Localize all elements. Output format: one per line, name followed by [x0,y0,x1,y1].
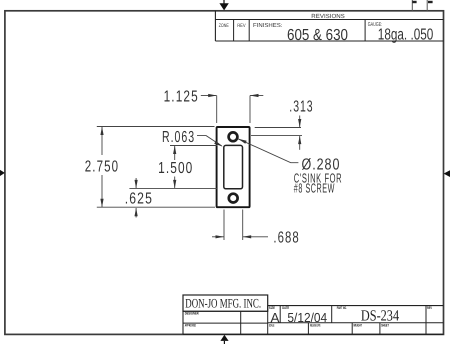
svg-text:APPROVED: APPROVED [185,324,197,328]
svg-text:REVISIONS: REVISIONS [311,13,345,20]
bottom hole countersink [229,194,238,203]
revisions block outline [215,11,443,41]
title block company name [185,295,261,310]
svg-text:2.750: 2.750 [85,158,119,175]
date value [287,310,327,325]
dim .688 extension lines [224,210,243,241]
label approved [185,324,197,328]
finishes cell label [253,22,283,29]
dim 2.750 extension lines [97,127,215,208]
dim .313 text [289,98,313,115]
svg-text:R.063: R.063 [162,129,195,146]
title block outline lines [183,306,443,335]
svg-text:DESIGNER: DESIGNER [185,312,199,316]
dim .313 arrows [298,116,301,150]
svg-text:.313: .313 [289,98,313,115]
centering mark right [444,170,450,177]
dim .313 extension lines [251,128,302,136]
title block don-jo box [183,295,268,311]
label size [269,306,275,310]
dim 1.125 arrows [201,94,263,97]
leader O.280 line and arrow [238,139,298,163]
gauge cell label [368,22,383,28]
dim 1.500 arrows [173,146,176,189]
scan artifact marks above border [412,0,432,11]
svg-text:RELEASE DATE: RELEASE DATE [310,323,321,327]
dim 1.500 extension line top [170,145,218,147]
part number DS-234 [361,308,399,325]
dim 1.125 text [164,89,199,106]
svg-text:#8 SCREW: #8 SCREW [294,180,335,195]
leader R.063 text [162,129,195,146]
svg-text:DS-234: DS-234 [361,308,399,325]
centering mark left [0,170,5,176]
svg-text:.688: .688 [273,230,299,247]
svg-text:PART NO.: PART NO. [337,306,347,310]
dim 1.125 extension lines [217,96,250,124]
svg-text:REV: REV [427,306,432,310]
note csink for [294,170,342,185]
rev cell label [237,23,246,29]
svg-text:1.500: 1.500 [158,160,193,177]
revisions header text [311,13,345,20]
svg-text:605 & 630: 605 & 630 [287,27,348,44]
finishes value 605 & 630 [287,27,348,44]
label release date [310,323,321,327]
dim .625 text [125,190,153,207]
dim .688 arrows [212,235,268,238]
zone cell label [219,23,229,29]
svg-text:FINISHES:: FINISHES: [253,22,283,29]
plate outline [217,127,250,207]
svg-text:ZONE: ZONE [219,23,229,29]
svg-text:18ga. .050: 18ga. .050 [378,27,434,44]
svg-text:5/12/04: 5/12/04 [287,310,327,325]
label part no [337,306,347,310]
svg-text:SCALE: SCALE [269,323,275,327]
centering mark top [219,0,228,10]
label date [282,306,289,310]
note #8 screw [294,180,335,195]
dim 2.750 text [85,158,119,175]
gauge value 18ga .050 [378,27,434,44]
centering mark bottom [220,335,228,344]
size value A [270,310,280,325]
label designer [185,312,199,316]
plate cutout [224,145,243,188]
dim 2.750 dimension line with arrows [100,127,103,208]
svg-text:REV: REV [237,23,246,29]
svg-text:WEIGHT: WEIGHT [353,323,362,327]
label weight [353,323,362,327]
dim 1.500 text [158,160,193,177]
svg-text:1.125: 1.125 [164,89,199,106]
top hole countersink [229,132,238,141]
svg-text:.625: .625 [125,190,153,207]
leader R.063 line and arrow [197,136,223,147]
dim O.280 text [302,156,341,173]
svg-text:DON-JO MFG. INC.: DON-JO MFG. INC. [185,295,261,310]
label sheet [381,323,389,327]
label rev [427,306,432,310]
dim .688 text [273,230,299,247]
dim .625 arrows [135,178,138,218]
shared extension line cutout bottom [129,187,217,189]
label scale [269,323,275,327]
svg-text:SHEET: SHEET [381,323,389,327]
